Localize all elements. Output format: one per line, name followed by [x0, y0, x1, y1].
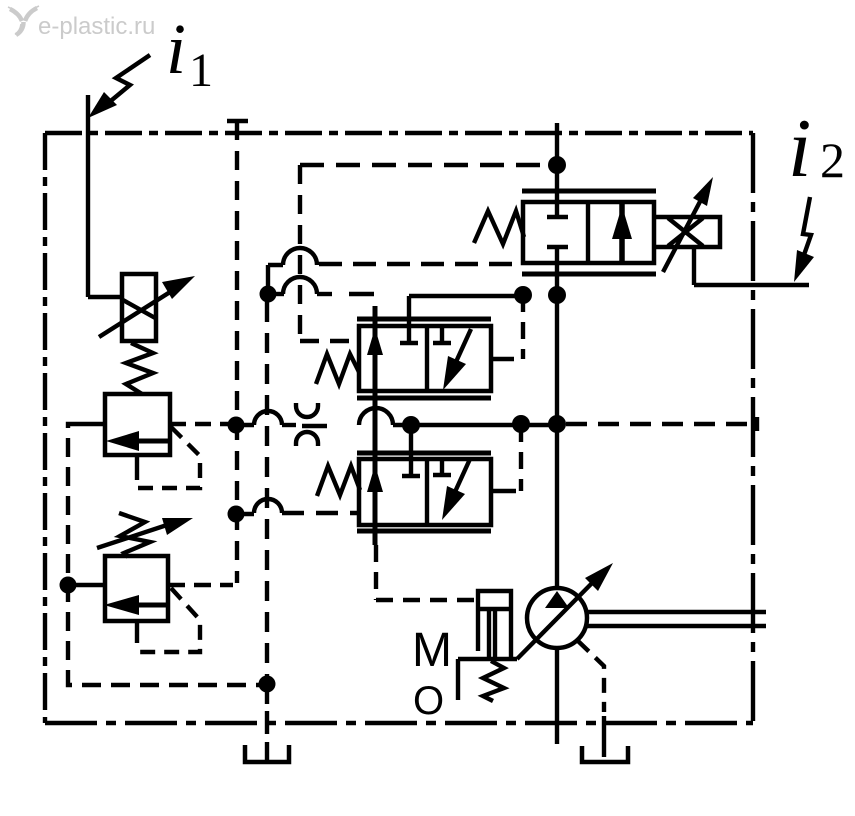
control cylinder piston [478, 607, 511, 611]
flow control valve X stroke [123, 300, 157, 319]
svg-text:e-plastic.ru: e-plastic.ru [38, 13, 155, 40]
main line y425 short [236, 423, 254, 427]
R1 bottom stub [135, 455, 139, 480]
watermark logo e-plastic.ru [8, 6, 39, 35]
coupling symbol lower arc [296, 432, 318, 446]
valve V2 left box blocked port from node [402, 425, 420, 476]
junction dot y425 x521 [512, 415, 530, 433]
R2 right pilot dashed [136, 588, 200, 652]
svg-text:O: O [413, 679, 444, 723]
node corner line y265 [268, 265, 283, 294]
throttle valve top-right box [654, 217, 720, 247]
tank T2 [582, 746, 628, 762]
svg-text:M: M [412, 624, 452, 677]
R1 right pilot dashed [136, 427, 200, 488]
pump suction below [555, 648, 559, 744]
svg-text:i: i [166, 9, 186, 89]
pump outlet triangle [545, 591, 569, 608]
R2 adjustable spring [119, 513, 150, 557]
R2 bottom stub [135, 621, 139, 643]
pump drive shaft lines [586, 612, 766, 626]
main line y425: left dashed from R1 [170, 422, 236, 426]
svg-text:2: 2 [820, 132, 845, 188]
main line y425 dash [282, 423, 296, 427]
control cylinder body [478, 591, 511, 661]
pump variable arrow [517, 577, 598, 659]
throttle TR arrow [663, 194, 704, 272]
corner T to valve V1 top port [409, 296, 523, 341]
V1 left box blocked T-bar [400, 341, 418, 345]
control cylinder rod [489, 609, 495, 659]
main vertical line x557 top [555, 123, 559, 202]
valve V3 top rail [522, 189, 656, 194]
valve V3 bottom rail [522, 272, 656, 277]
plugged pilot line from top border (T-cap) [227, 119, 248, 123]
hop of y513 over drain x267 [254, 499, 282, 513]
valve V2 right port dashed link [519, 425, 523, 491]
line y294 start [268, 292, 284, 296]
junction dot line237 at y514 [228, 506, 245, 523]
valve V1 spring [316, 354, 359, 384]
control spring [483, 661, 504, 701]
R1 left pilot dashed [83, 422, 105, 426]
svg-text:1: 1 [189, 44, 213, 97]
valve V1 bottom rail [357, 396, 491, 401]
junction dot R2 left [60, 577, 77, 594]
main line y425 solid to x557 [393, 423, 557, 427]
valve V2 bottom rail [357, 529, 491, 534]
junction dot x557 y295 [548, 286, 566, 304]
coupling symbol upper arc [296, 403, 318, 417]
pump case drain dashed [578, 641, 604, 712]
valve V2 diagonal arrow [449, 459, 470, 505]
valve V2 control line to pump cylinder [376, 545, 477, 600]
junction dot y425 x411 [402, 416, 420, 434]
valve V1 top rail [357, 317, 491, 322]
valve V3 divider [586, 202, 590, 263]
valve V3 spring [474, 211, 524, 244]
arrow i2 [799, 197, 811, 269]
valve V2 top rail [357, 451, 491, 456]
junction dot drain bottom [259, 676, 276, 693]
control linkage [458, 657, 517, 661]
valve V1 divider [425, 326, 429, 391]
R2 spring arrow [97, 524, 170, 548]
valve V2 right box T stub [433, 459, 451, 475]
inter-valve link line x375 with arrows [373, 306, 378, 545]
reducing valve R1 arrow [139, 439, 169, 444]
enclosure border left [43, 133, 47, 723]
enclosure border bottom [45, 721, 753, 725]
valve V2 spring [317, 466, 360, 496]
pilot line x300 vertical with corner to valve V1 [300, 165, 359, 341]
valve V1 body [359, 326, 491, 391]
R2 right horizontal pilot to node line [168, 583, 233, 587]
pilot line y165 to main node [300, 163, 548, 167]
control bracket [456, 659, 460, 700]
reducing valve R1 (square) [105, 394, 170, 455]
valve V1 diagonal arrow [450, 329, 471, 375]
hop of y425 over valve link x375 [359, 408, 393, 425]
R2 left port [69, 583, 105, 587]
wire i1 inlet [88, 95, 122, 297]
valve V2 divider [425, 459, 429, 525]
pilot y513 dashes [282, 511, 361, 515]
valve V2 body [359, 459, 491, 525]
spring between throttle and reducing valve [126, 343, 153, 394]
valve V3 left box blocked ports [547, 202, 568, 263]
flow control valve top-left (box) [122, 274, 156, 341]
valve V2 right port stub [491, 489, 516, 493]
plugged end T-bar at right border [755, 417, 759, 431]
valve V3 body [523, 202, 654, 263]
pilot line y513 to valve V2 [236, 512, 254, 516]
throttle TR X [668, 218, 703, 246]
throttle TR output wire to i2 [694, 247, 809, 285]
drain to tank1 [265, 692, 269, 760]
svg-text:i: i [788, 102, 811, 195]
line y294 dashes [317, 292, 332, 296]
pump P1 circle [527, 588, 587, 648]
relief valve R2 (square) [105, 556, 168, 621]
hop of y265 over x300 [283, 248, 317, 265]
enclosure border right [751, 133, 755, 723]
valve V1 up arrowhead [367, 328, 383, 355]
valve V1 right box T stub [433, 326, 451, 343]
junction dot line237 at y425 [228, 417, 245, 434]
arrow i1 [101, 55, 150, 109]
drain line x267 dashed [265, 302, 269, 683]
enclosure border top [45, 131, 753, 135]
main line y426 dash at coupling [302, 424, 327, 428]
relief valve R2 arrow [139, 603, 166, 608]
main vertical line x557 middle [555, 263, 559, 588]
valve V2 up arrowhead [367, 465, 383, 492]
tank T1 [245, 745, 289, 762]
valve V1 right port dashed link [521, 295, 525, 359]
hop of y294 over x300 [283, 277, 317, 294]
junction dot drain top [260, 286, 277, 303]
junction dot x523 y295 [514, 286, 532, 304]
valve V3 up arrow [619, 202, 625, 263]
flow control valve arrow [99, 287, 178, 337]
dashed y424 to right border [566, 422, 750, 426]
junction dot x557 y165 [548, 156, 566, 174]
junction dot y425 x557 [548, 415, 566, 433]
dashed y265 to top valve [319, 262, 523, 266]
valve V1 right port stub [491, 357, 514, 361]
hop of y425 over drain x267 [254, 411, 282, 425]
